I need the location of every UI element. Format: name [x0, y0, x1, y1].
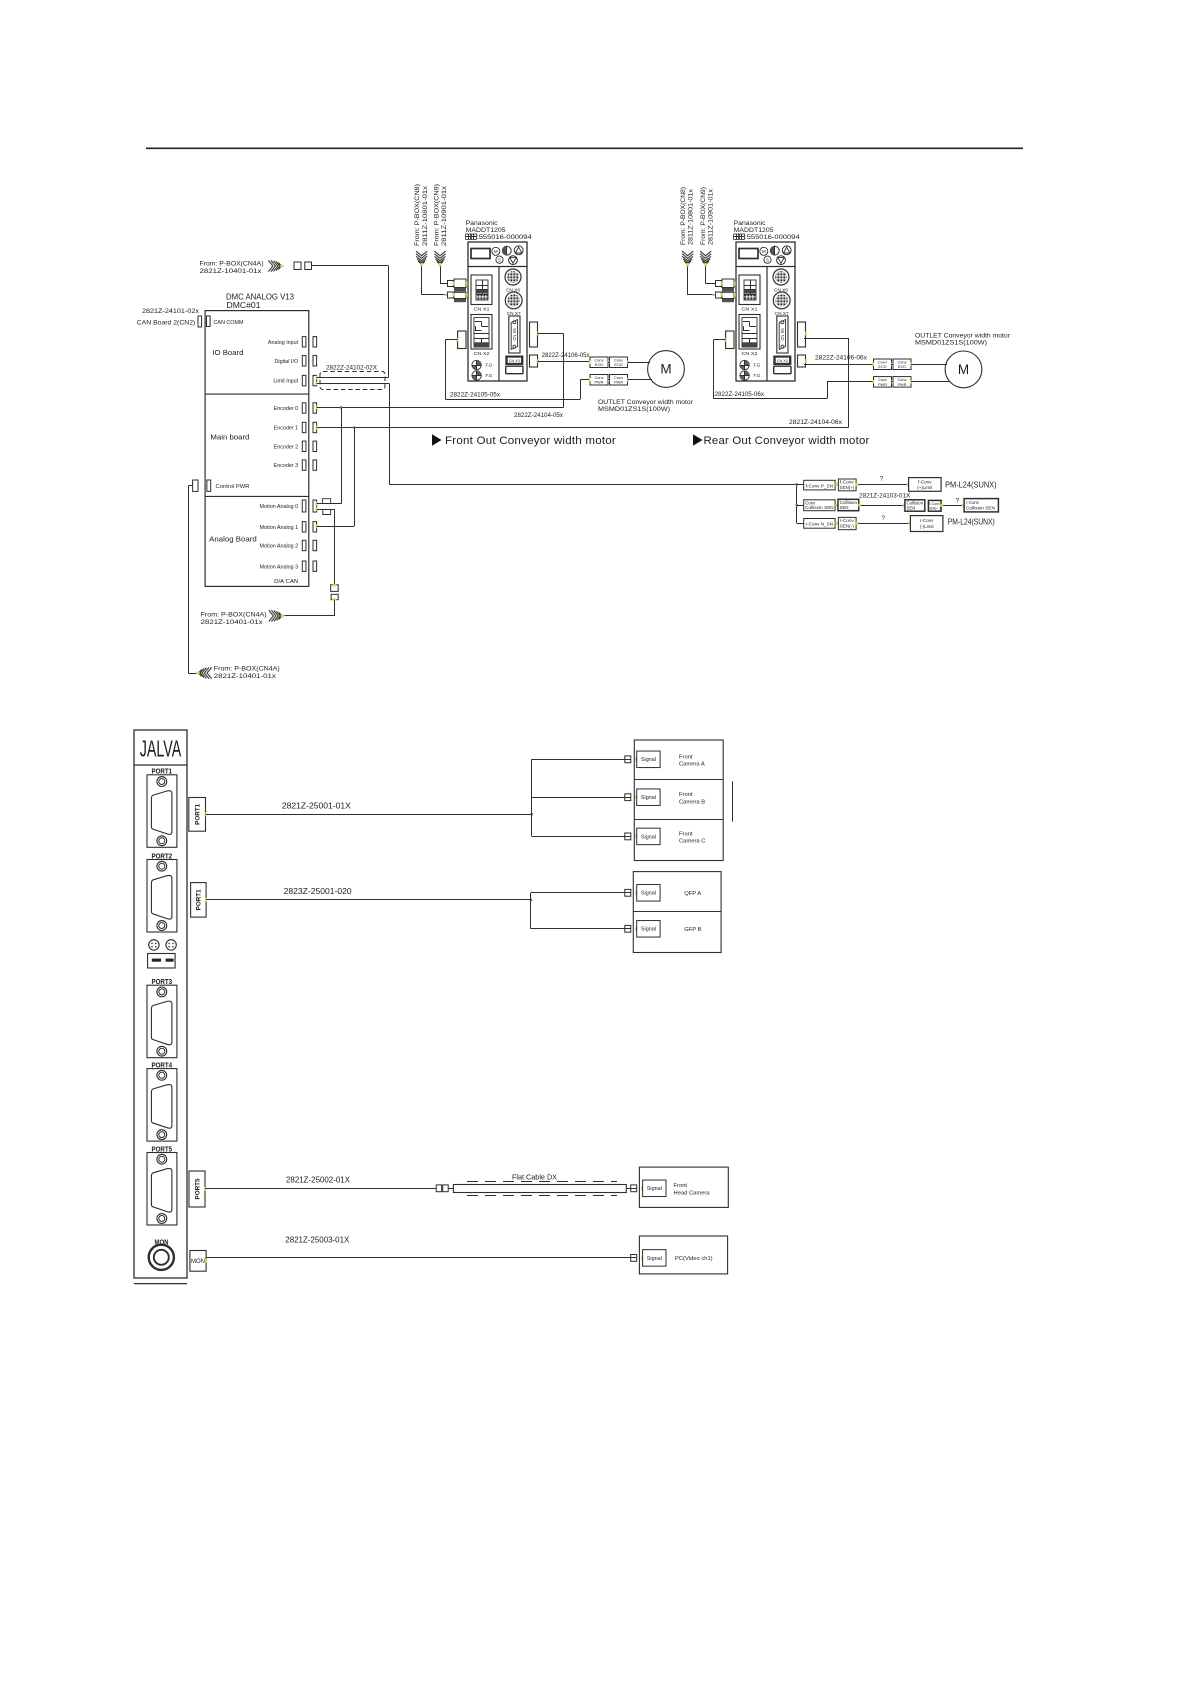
- svg-text:S: S: [766, 257, 769, 262]
- svg-text:From: P-BOX(CN4A): From: P-BOX(CN4A): [214, 665, 280, 672]
- svg-text:PORT1: PORT1: [194, 803, 201, 824]
- svg-text:DMC#01: DMC#01: [227, 301, 261, 310]
- svg-text:(-)Limit: (-)Limit: [920, 524, 935, 529]
- svg-text:Front: Front: [679, 754, 693, 760]
- svg-text:Camera B: Camera B: [679, 800, 705, 806]
- svg-text:?: ?: [880, 476, 884, 483]
- svg-text:ECD: ECD: [878, 364, 886, 369]
- svg-text:Main board: Main board: [210, 432, 249, 441]
- svg-text:SEN: SEN: [907, 505, 916, 510]
- svg-text:2821Z-25003-01X: 2821Z-25003-01X: [285, 1236, 350, 1245]
- svg-text:SEN(+): SEN(+): [840, 485, 855, 490]
- svg-text::555016-000094: :555016-000094: [745, 234, 801, 241]
- svg-text:Signal: Signal: [641, 757, 656, 763]
- svg-text:Collision SEN: Collision SEN: [966, 505, 995, 510]
- svg-text:Signal: Signal: [647, 1256, 662, 1262]
- svg-text:Rear Out Conveyor width motor: Rear Out Conveyor width motor: [704, 435, 870, 447]
- svg-text:IO Board: IO Board: [212, 348, 243, 357]
- svg-text:Digital I/O: Digital I/O: [275, 359, 299, 365]
- svg-text:Camera A: Camera A: [679, 762, 705, 768]
- svg-text:PC(Video ch1): PC(Video ch1): [675, 1256, 713, 1262]
- svg-text:Signal: Signal: [641, 891, 656, 897]
- svg-text:PM-L24(SUNX): PM-L24(SUNX): [945, 481, 997, 490]
- svg-text:Signal: Signal: [641, 795, 656, 801]
- svg-text:PORT5: PORT5: [194, 1178, 201, 1199]
- svg-text:MSMD01ZS1S(100W): MSMD01ZS1S(100W): [598, 406, 670, 413]
- svg-text:Motion Analog 1: Motion Analog 1: [260, 525, 299, 531]
- svg-text:2822Z-24102-02X: 2822Z-24102-02X: [326, 365, 377, 372]
- svg-text:From: P-BOX(CN8): From: P-BOX(CN8): [680, 187, 687, 245]
- svg-text:2821Z-10401-01x: 2821Z-10401-01x: [200, 268, 263, 275]
- svg-text:MON: MON: [191, 1259, 205, 1265]
- svg-text:2821Z-25002-01X: 2821Z-25002-01X: [286, 1176, 351, 1185]
- svg-text:Encoder 3: Encoder 3: [274, 463, 299, 469]
- svg-text:2822Z-24105-06x: 2822Z-24105-06x: [715, 391, 765, 398]
- svg-text:Panasonic: Panasonic: [466, 220, 499, 227]
- svg-text:f-Conv P_SN: f-Conv P_SN: [806, 483, 834, 488]
- svg-text:F.G: F.G: [754, 373, 761, 378]
- svg-text:Analog Board: Analog Board: [209, 534, 257, 543]
- svg-text:OUTLET Conveyor width motor: OUTLET Conveyor width motor: [598, 399, 694, 406]
- svg-text:F.G: F.G: [486, 373, 493, 378]
- svg-text::555016-000094: :555016-000094: [477, 234, 533, 241]
- svg-text:CN X2: CN X2: [742, 351, 758, 357]
- svg-text:S: S: [498, 257, 501, 262]
- svg-text:2822Z-24105-05x: 2822Z-24105-05x: [450, 391, 501, 398]
- svg-text:MSMD01ZS1S(100W): MSMD01ZS1S(100W): [915, 339, 987, 346]
- svg-text:PWR: PWR: [878, 382, 887, 387]
- svg-text:Encoder 0: Encoder 0: [274, 406, 299, 412]
- svg-text:PWR: PWR: [594, 380, 603, 385]
- svg-text:From: P-BOX(CN8): From: P-BOX(CN8): [414, 184, 421, 246]
- svg-text:f-Conv: f-Conv: [918, 479, 932, 484]
- svg-text:SEN(+,-): SEN(+,-): [929, 507, 940, 511]
- svg-text:Collision SEN: Collision SEN: [805, 505, 834, 510]
- svg-text:CN X1: CN X1: [474, 306, 490, 312]
- svg-text:CAN Board 2(CN2): CAN Board 2(CN2): [137, 320, 196, 327]
- svg-text:MADDT1205: MADDT1205: [466, 227, 506, 234]
- svg-text:Front: Front: [674, 1183, 688, 1189]
- svg-text:From: P-BOX(CN9): From: P-BOX(CN9): [433, 184, 440, 246]
- svg-text:Motion Analog 3: Motion Analog 3: [260, 564, 299, 570]
- svg-text:JALVA: JALVA: [140, 735, 182, 761]
- svg-text:F.G: F.G: [486, 363, 493, 368]
- svg-text:ECD: ECD: [595, 362, 603, 367]
- svg-text:OUTLET Conveyor width motor: OUTLET Conveyor width motor: [915, 332, 1011, 339]
- svg-text:2822Z-24106-05x: 2822Z-24106-05x: [542, 352, 591, 359]
- svg-text:ECD: ECD: [614, 362, 622, 367]
- svg-text:Encoder 2: Encoder 2: [274, 444, 299, 450]
- svg-text:CN X7: CN X7: [507, 311, 522, 316]
- svg-text:Front: Front: [679, 792, 693, 798]
- svg-text:D/A CAN: D/A CAN: [274, 579, 298, 585]
- svg-text:CN X3: CN X3: [777, 359, 788, 363]
- svg-text:?: ?: [956, 498, 960, 505]
- svg-text:Encoder 1: Encoder 1: [274, 426, 299, 432]
- svg-text:2822Z-24106-06x: 2822Z-24106-06x: [815, 354, 868, 361]
- svg-text:Signal: Signal: [647, 1186, 662, 1192]
- svg-text:Analog Input: Analog Input: [268, 340, 299, 346]
- svg-text:Head Camera: Head Camera: [674, 1190, 711, 1196]
- svg-text:M: M: [958, 362, 969, 377]
- svg-text:PORT1: PORT1: [196, 889, 203, 910]
- svg-text:Limit Input: Limit Input: [273, 379, 298, 385]
- svg-text:Motion Analog 2: Motion Analog 2: [260, 544, 299, 550]
- svg-text:CN X5: CN X5: [512, 328, 517, 341]
- svg-text:From: P-BOX(CN4A): From: P-BOX(CN4A): [200, 261, 264, 268]
- svg-text:2821Z-24104-06x: 2821Z-24104-06x: [789, 419, 843, 426]
- svg-text:Motion Analog 0: Motion Analog 0: [260, 504, 299, 510]
- svg-text:F.G: F.G: [754, 363, 761, 368]
- svg-text:2821Z-24101-02x: 2821Z-24101-02x: [142, 308, 200, 315]
- svg-text:MADDT1205: MADDT1205: [734, 227, 774, 234]
- svg-text:f-Conv: f-Conv: [929, 502, 940, 506]
- svg-text:CN X2: CN X2: [474, 351, 490, 357]
- svg-text:2821Z-24103-01X: 2821Z-24103-01X: [859, 492, 910, 499]
- svg-text:r-Conv: r-Conv: [920, 518, 934, 523]
- svg-text:Panasonic: Panasonic: [734, 220, 767, 227]
- svg-text:Signal: Signal: [641, 834, 656, 840]
- svg-text:CAN COMM: CAN COMM: [214, 320, 245, 326]
- svg-text:QFP A: QFP A: [684, 891, 701, 897]
- svg-text:CN X5: CN X5: [780, 328, 785, 341]
- svg-text:M: M: [494, 249, 498, 254]
- svg-text:PWR: PWR: [614, 380, 623, 385]
- svg-text:2811Z-10901-01x: 2811Z-10901-01x: [441, 185, 448, 246]
- svg-text:(+)Limit: (+)Limit: [917, 485, 933, 490]
- svg-text:PM-L24(SUNX): PM-L24(SUNX): [948, 518, 995, 527]
- svg-text:M: M: [660, 362, 671, 377]
- svg-text:2811Z-10801-01x: 2811Z-10801-01x: [687, 188, 694, 245]
- svg-text:?: ?: [881, 515, 885, 522]
- svg-text:2811Z-10901-01x: 2811Z-10901-01x: [707, 188, 714, 245]
- svg-text:r-Conv N_SN: r-Conv N_SN: [806, 522, 834, 527]
- svg-text:PWR: PWR: [897, 382, 906, 387]
- svg-text:2821Z-25001-01X: 2821Z-25001-01X: [282, 802, 352, 811]
- svg-text:Control PWR: Control PWR: [216, 484, 250, 490]
- svg-text:M: M: [762, 249, 766, 254]
- svg-text:SEN: SEN: [840, 505, 849, 510]
- svg-text:2821Z-10401-01x: 2821Z-10401-01x: [201, 619, 264, 626]
- svg-text:GFP B: GFP B: [684, 927, 701, 933]
- svg-text:2821Z-10401-01x: 2821Z-10401-01x: [214, 673, 277, 680]
- svg-text:From: P-BOX(CN4A): From: P-BOX(CN4A): [201, 612, 267, 619]
- svg-text:Front Out Conveyor width motor: Front Out Conveyor width motor: [445, 435, 616, 447]
- svg-text:Flat Cable DX: Flat Cable DX: [512, 1175, 557, 1182]
- svg-text:Camera C: Camera C: [679, 839, 705, 845]
- svg-text:Signal: Signal: [641, 927, 656, 933]
- svg-text:Front: Front: [679, 831, 693, 837]
- svg-text:2811Z-10801-01x: 2811Z-10801-01x: [422, 185, 429, 246]
- svg-text:ECD: ECD: [898, 364, 906, 369]
- svg-text:2823Z-25001-020: 2823Z-25001-020: [284, 887, 353, 896]
- svg-text:CN X7: CN X7: [775, 311, 790, 316]
- svg-text:CN X3: CN X3: [509, 359, 520, 363]
- svg-text:SEN(-): SEN(-): [840, 523, 855, 528]
- svg-text:From: P-BOX(CN9): From: P-BOX(CN9): [700, 187, 707, 245]
- svg-text:CN X1: CN X1: [742, 306, 758, 312]
- svg-text:2822Z-24104-05x: 2822Z-24104-05x: [514, 412, 564, 419]
